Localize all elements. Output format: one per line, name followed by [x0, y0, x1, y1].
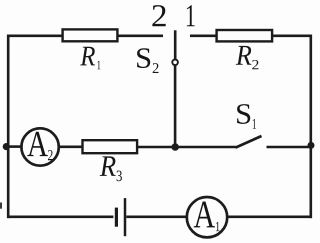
left edge artifact mark [0, 203, 2, 209]
wire S2 pivot to middle junction [174, 66, 177, 148]
label R1 [80, 47, 100, 70]
label A2 [27, 132, 52, 160]
label R3 [100, 156, 122, 181]
ammeter A2 circle [21, 128, 58, 165]
node middle junction dot [171, 143, 179, 151]
wire S1-to-right segment [267, 146, 313, 149]
wire bottom-left segment [7, 216, 113, 219]
label contact 2 [152, 5, 165, 26]
wire right vertical [309, 35, 312, 219]
resistor R1 [63, 29, 118, 41]
wire top contact-1 to R2 segment [190, 34, 218, 37]
node right junction dot [308, 142, 315, 149]
switch S2 pivot circle [172, 60, 178, 66]
resistor R2 [217, 30, 273, 41]
wire top-right segment [271, 34, 312, 37]
wire bottom middle segment [126, 216, 187, 219]
resistor R3 [83, 140, 138, 153]
label contact 1 [187, 5, 195, 26]
switch S1 blade [236, 136, 262, 148]
battery positive plate [124, 198, 127, 236]
label S2 [137, 48, 158, 73]
label A1 [194, 202, 220, 232]
wire middle-left segment [8, 145, 22, 148]
wire A2-to-R3 segment [59, 146, 83, 149]
wire top middle segment (R1 to contact 2) [116, 34, 163, 37]
wire bottom-right segment [227, 216, 312, 219]
node left junction dot [3, 143, 10, 150]
label S1 [237, 104, 256, 129]
ammeter A1 circle [187, 197, 227, 237]
wire left vertical [7, 35, 10, 219]
switch S2 blade upper [174, 30, 177, 59]
label R2 [236, 46, 259, 69]
battery negative plate [115, 208, 118, 227]
wire top-left segment [7, 34, 64, 37]
wire R3-to-S1 segment [137, 146, 236, 149]
